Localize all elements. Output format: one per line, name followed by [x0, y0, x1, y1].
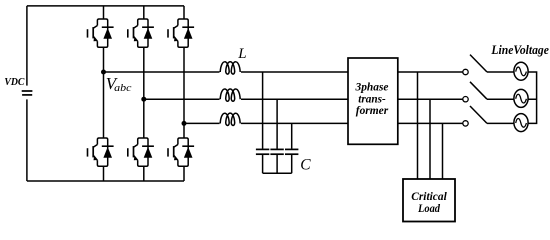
svg-text:Load: Load: [417, 203, 440, 215]
wire switch to source a: [487, 71, 514, 73]
wire switch to source c: [487, 122, 514, 124]
svg-text:VDC: VDC: [4, 77, 24, 88]
svg-text:3phase: 3phase: [355, 82, 389, 94]
wire capacitor common bus: [263, 172, 292, 174]
load box Critical Load: [403, 179, 455, 222]
wire left DC rail upper: [26, 6, 28, 86]
inductor L phase b: [220, 89, 242, 103]
svg-text:L: L: [237, 46, 246, 62]
inductor L phase c: [220, 113, 242, 127]
wire transformer output b: [398, 98, 463, 100]
IGBT/diode switch S3 (leg B top): [128, 19, 154, 47]
svg-text:former: former: [356, 105, 389, 117]
AC source grid phase a: [514, 62, 528, 80]
IGBT/diode switch S2 (leg C bottom): [168, 138, 194, 166]
wire load tap c: [442, 123, 444, 179]
label C: [300, 157, 311, 174]
wire leg B bottom drop: [143, 166, 145, 181]
node Va junction dot: [101, 70, 106, 75]
wire phase b: [144, 98, 348, 100]
label VDC: [4, 77, 24, 88]
wire transformer output a: [398, 71, 463, 73]
wire right grid bus: [528, 72, 537, 123]
switch SW1 phase a: [463, 55, 487, 75]
wire leg C bottom drop: [183, 166, 185, 181]
wire leg C middle: [183, 47, 185, 138]
IGBT/diode switch S6 (leg B bottom): [128, 138, 154, 166]
capacitor phase c: [285, 123, 298, 173]
label Vabc: [106, 74, 132, 94]
wire leg A top drop: [103, 6, 105, 19]
capacitor phase b: [270, 99, 283, 173]
wire bottom DC bus: [27, 180, 184, 182]
IGBT/diode switch S5 (leg C top): [168, 19, 194, 47]
label L: [237, 46, 246, 62]
IGBT/diode switch S4 (leg A bottom): [88, 138, 114, 166]
wire phase a: [104, 71, 349, 73]
AC source grid phase b: [514, 89, 528, 107]
DC source VDC battery plates: [22, 91, 33, 95]
switch SW2 phase b: [463, 82, 487, 102]
wire load tap b: [429, 99, 431, 179]
inductor L phase a: [220, 62, 242, 76]
AC source grid phase c: [514, 114, 528, 132]
IGBT/diode switch S1 (leg A top): [88, 19, 114, 47]
node Vb junction dot: [141, 97, 146, 102]
wire leg B top drop: [143, 6, 145, 19]
wire transformer output c: [398, 122, 463, 124]
wire leg B middle: [143, 47, 145, 138]
wire phase c: [184, 122, 348, 124]
wire switch to source b: [487, 98, 514, 100]
wire load tap a: [417, 72, 419, 179]
svg-text:C: C: [300, 157, 311, 174]
svg-text:Critical: Critical: [411, 191, 447, 203]
label LineVoltage: [491, 42, 550, 57]
svg-text:trans-: trans-: [358, 93, 386, 105]
svg-text:abc: abc: [114, 82, 132, 94]
switch SW3 phase c: [463, 106, 487, 126]
wire leg C top drop: [183, 6, 185, 19]
wire left DC rail lower: [26, 99, 28, 181]
wire leg A bottom drop: [103, 166, 105, 181]
node Vc junction dot: [182, 121, 187, 126]
wire top DC bus: [27, 5, 184, 7]
wire leg A middle: [103, 47, 105, 138]
capacitor phase a: [256, 72, 269, 173]
svg-text:LineVoltage: LineVoltage: [491, 42, 550, 57]
transformer T box: [348, 58, 398, 144]
